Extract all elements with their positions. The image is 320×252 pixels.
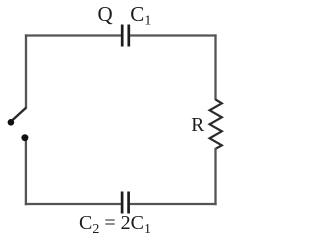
- wire: bottom-left horizontal (C2 left plate to bottom-left corner): [25, 203, 121, 205]
- switch blade (open, diagonal): [12, 108, 26, 121]
- svg-text:R: R: [191, 115, 204, 136]
- switch lower terminal node (dot): [21, 134, 28, 141]
- wire: right vertical upper (top-right corner to resistor): [214, 34, 216, 100]
- switch blade end node (dot): [8, 119, 15, 126]
- resistor R zigzag: [210, 100, 222, 149]
- wire: left vertical lower (bottom-left corner up to switch node): [25, 138, 27, 205]
- capacitor C2 left plate: [121, 192, 124, 214]
- svg-text:Q: Q: [98, 2, 113, 26]
- svg-text:C1: C1: [130, 2, 151, 29]
- wire: left vertical upper (top-left corner down to switch): [25, 34, 27, 108]
- capacitor C1 left plate: [121, 25, 124, 47]
- wire: top-right horizontal (C1 right plate to top-right corner): [130, 34, 217, 36]
- wire: top-left horizontal (left corner to C1 left plate): [25, 34, 121, 36]
- capacitor C1 right plate: [127, 25, 130, 47]
- capacitor C2 right plate: [127, 192, 130, 214]
- wire: right vertical lower (resistor to bottom-right corner): [214, 148, 216, 205]
- wire: bottom-right horizontal (bottom-right corner to C2 right plate): [130, 203, 217, 205]
- svg-text:C2 = 2C1: C2 = 2C1: [79, 212, 151, 237]
